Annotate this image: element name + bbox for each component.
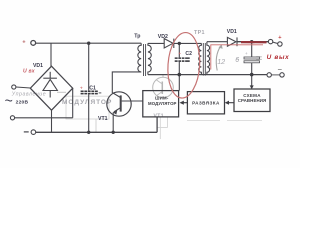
svg-text:СРАВНЕНИЯ: СРАВНЕНИЯ [238, 98, 267, 103]
svg-text:РАЗВЯЗКА: РАЗВЯЗКА [192, 101, 220, 106]
svg-text:Управление: Управление [12, 91, 46, 97]
svg-text:+: + [22, 40, 25, 46]
svg-text:СХЕМА: СХЕМА [243, 93, 261, 98]
svg-text:ТР1: ТР1 [194, 30, 205, 36]
svg-text:+: + [178, 51, 181, 56]
svg-text:VT1: VT1 [98, 116, 108, 122]
svg-text:VD2: VD2 [158, 34, 168, 40]
svg-text:12: 12 [217, 57, 225, 66]
svg-text:U вх: U вх [23, 68, 35, 74]
svg-text:C1: C1 [89, 85, 96, 91]
svg-text:VD1: VD1 [227, 29, 237, 35]
svg-text:+: + [245, 51, 248, 56]
svg-text:~: ~ [5, 93, 13, 109]
svg-text:+: + [80, 85, 83, 90]
svg-text:МОДУЛЯТОР: МОДУЛЯТОР [62, 99, 112, 106]
svg-text:МОДУЛЯТОР: МОДУЛЯТОР [148, 101, 177, 106]
svg-text:C2: C2 [185, 51, 192, 57]
svg-text:220В: 220В [16, 100, 29, 106]
svg-text:U вых: U вых [267, 54, 290, 61]
svg-text:Тр: Тр [134, 33, 140, 39]
